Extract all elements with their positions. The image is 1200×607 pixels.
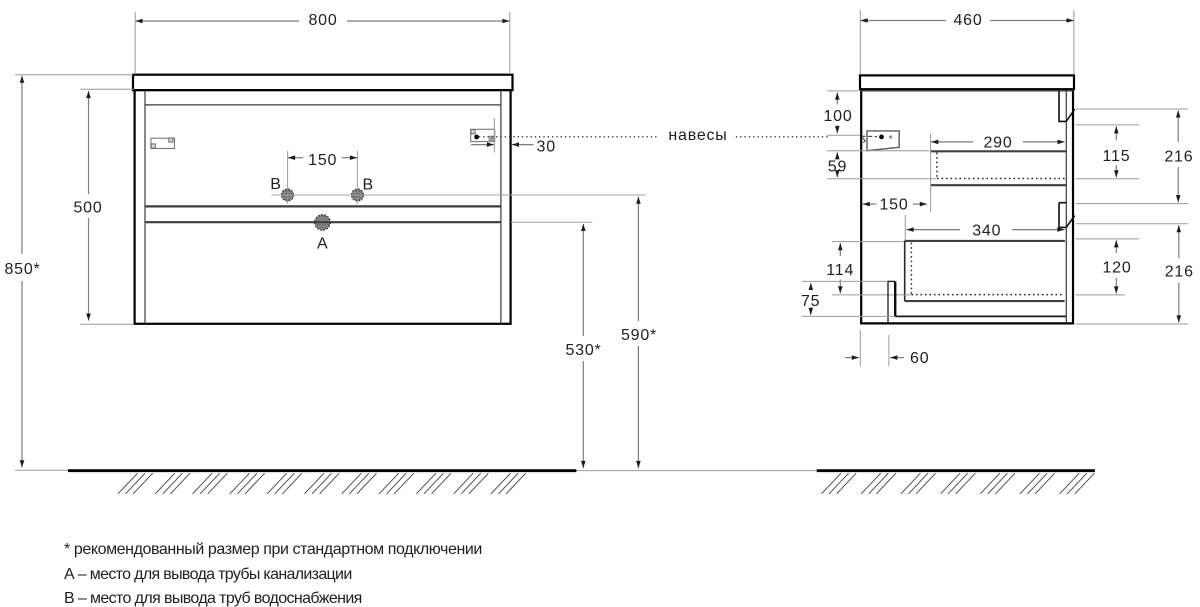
lower drawer hidden outline: [911, 243, 1063, 295]
plinth recess (side bottom): [887, 281, 895, 322]
dimension 216 (lower): [1165, 225, 1194, 322]
svg-text:216: 216: [1165, 264, 1194, 281]
svg-text:115: 115: [1103, 148, 1131, 165]
floor hatching (front view): [118, 473, 526, 494]
footnote: recommended size: [64, 541, 482, 558]
point A: [315, 215, 331, 231]
drawer divider line 1: [145, 205, 501, 207]
extension line 216 lower bottom: [1076, 323, 1188, 325]
footnote: A sewer pipe outlet: [64, 566, 352, 583]
svg-text:В – место для вывода труб водо: В – место для вывода труб водоснабжения: [64, 590, 362, 607]
dimension 60: [845, 330, 929, 367]
countertop (front view): [133, 75, 513, 91]
svg-text:500: 500: [73, 200, 102, 217]
hanger bracket (side): [862, 131, 900, 151]
footnote: B water supply outlet: [64, 590, 362, 607]
right wall inner line: [1065, 91, 1067, 322]
dimension 850*: [4, 75, 133, 468]
svg-text:114: 114: [826, 262, 854, 279]
svg-text:850*: 850*: [4, 261, 40, 278]
extension line 115 bottom: [1076, 178, 1139, 180]
lower drawer rail top: [905, 240, 1065, 242]
right wall inner line: [500, 90, 502, 323]
upper drawer hidden outline: [937, 153, 1066, 179]
cabinet body outline (front view): [135, 90, 511, 324]
lower drawer front edge: [904, 241, 906, 301]
dimension 530*: [565, 224, 601, 468]
dimension 75: [801, 281, 894, 316]
label B left: [270, 176, 281, 193]
upper drawer rail top: [931, 150, 1067, 152]
svg-text:460: 460: [953, 12, 982, 29]
dimension 150 (side): [863, 197, 927, 214]
dotted leader to навесы label: [480, 136, 829, 138]
svg-text:60: 60: [910, 350, 929, 367]
dimension 100: [823, 91, 860, 135]
top mounting notch (side): [1059, 91, 1075, 121]
countertop (side view): [860, 75, 1074, 89]
svg-text:150: 150: [879, 197, 908, 214]
hanger bracket right (front): [471, 129, 495, 141]
floor hatching (side view): [822, 473, 1095, 494]
dimension 590*: [621, 197, 657, 468]
hanger bracket left (front): [151, 138, 175, 149]
dimension 120: [1102, 240, 1131, 293]
extension line 216 upper top: [1076, 108, 1188, 110]
label A: [317, 236, 328, 253]
dimension 800: [135, 12, 510, 74]
label B right: [362, 177, 373, 194]
svg-text:* рекомендованный размер при с: * рекомендованный размер при стандартном…: [64, 541, 482, 558]
svg-text:340: 340: [972, 222, 1001, 239]
dimension 216 (upper): [1164, 110, 1193, 202]
middle mounting notch (side): [1059, 203, 1075, 228]
upper drawer rail bottom: [931, 184, 1067, 186]
side body top edge: [860, 90, 1074, 92]
side body left wall: [860, 89, 862, 324]
dimension 115: [1103, 126, 1131, 177]
bottom panel line (side): [895, 315, 1066, 317]
drawer divider line 2: [145, 221, 501, 223]
dimension 30 (hanger offset): [471, 118, 556, 155]
top rail inner line: [145, 104, 501, 106]
svg-text:А – место для вывода трубы кан: А – место для вывода трубы канализации: [64, 566, 352, 583]
dimension 290: [931, 134, 1065, 212]
point B left: [282, 189, 294, 201]
svg-text:навесы: навесы: [668, 127, 727, 144]
svg-text:590*: 590*: [621, 327, 657, 344]
svg-text:800: 800: [308, 12, 337, 29]
floor line (side view): [817, 469, 1095, 472]
floor line (front view): [15, 469, 817, 471]
svg-text:150: 150: [308, 152, 337, 169]
dimension 59: [827, 151, 936, 179]
divider line overlay through point A: [314, 221, 332, 223]
left wall inner line: [144, 90, 146, 323]
svg-text:75: 75: [801, 293, 820, 310]
dimension 340: [905, 215, 1064, 241]
extension line 120 bottom: [1076, 294, 1125, 296]
svg-text:530*: 530*: [565, 342, 601, 359]
dimension 150 (front, between B points): [288, 151, 358, 204]
side body right wall outer: [1072, 89, 1074, 324]
svg-text:100: 100: [823, 108, 852, 125]
svg-text:30: 30: [537, 138, 556, 155]
line through A point: [511, 221, 592, 223]
extension line 216 upper bottom: [1076, 203, 1188, 205]
ext line overlays through B points: [280, 195, 366, 204]
line through B points: [272, 194, 646, 196]
lower drawer bottom edge: [905, 300, 1065, 302]
svg-text:B: B: [362, 177, 373, 194]
dimension 460: [860, 10, 1074, 75]
label навесы: [668, 127, 727, 144]
svg-text:120: 120: [1102, 260, 1131, 277]
dimension 114: [826, 242, 911, 295]
svg-text:A: A: [317, 236, 328, 253]
extension line 120 top: [1076, 238, 1139, 240]
side body bottom: [860, 322, 1074, 324]
svg-text:B: B: [270, 176, 281, 193]
extension line 115 top: [1076, 124, 1139, 126]
svg-text:59: 59: [828, 158, 847, 175]
svg-text:290: 290: [983, 135, 1012, 152]
dimension 500: [73, 89, 134, 324]
extension line 216 lower top: [1076, 223, 1188, 225]
point B right: [352, 189, 364, 201]
svg-text:216: 216: [1164, 148, 1193, 165]
